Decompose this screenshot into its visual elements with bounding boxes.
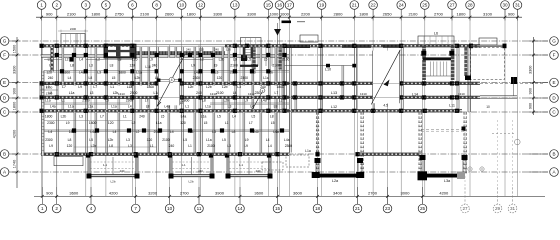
svg-text:1800: 1800 [251, 64, 259, 68]
svg-text:L1a: L1a [45, 99, 51, 103]
svg-text:L7: L7 [145, 99, 149, 103]
svg-text:2100: 2100 [230, 71, 238, 75]
svg-text:2100: 2100 [67, 11, 77, 16]
svg-text:3300: 3300 [247, 11, 257, 16]
svg-text:B: B [552, 152, 555, 157]
svg-text:1800: 1800 [118, 71, 126, 75]
svg-text:L2b: L2b [135, 76, 141, 80]
svg-text:G: G [552, 39, 556, 44]
svg-text:B: B [3, 152, 6, 157]
svg-text:1800: 1800 [13, 102, 17, 110]
svg-text:L3: L3 [89, 64, 93, 68]
svg-text:29: 29 [495, 206, 501, 211]
svg-text:L2b: L2b [206, 85, 212, 89]
svg-text:3300: 3300 [529, 66, 533, 74]
svg-text:L14: L14 [412, 93, 418, 97]
svg-text:E: E [552, 80, 555, 85]
svg-text:L1: L1 [190, 130, 194, 134]
svg-text:L4a: L4a [79, 71, 85, 75]
svg-text:L8: L8 [109, 144, 113, 148]
svg-text:L5: L5 [271, 121, 275, 125]
svg-text:L3: L3 [227, 144, 231, 148]
svg-text:L3: L3 [212, 130, 216, 134]
svg-text:4200: 4200 [439, 191, 449, 196]
svg-text:L5: L5 [161, 115, 165, 119]
svg-text:L1: L1 [111, 85, 115, 89]
svg-text:1310: 1310 [458, 92, 465, 96]
svg-text:2100: 2100 [230, 64, 238, 68]
svg-text:L5: L5 [252, 115, 256, 119]
svg-text:L4: L4 [48, 130, 52, 134]
svg-text:E: E [3, 80, 6, 85]
svg-text:22: 22 [371, 3, 377, 8]
svg-text:1-1: 1-1 [181, 163, 186, 167]
svg-text:1: 1 [40, 3, 43, 8]
svg-text:240: 240 [152, 64, 158, 68]
svg-text:1-1: 1-1 [239, 163, 244, 167]
svg-text:L8: L8 [202, 99, 206, 103]
svg-text:L5: L5 [89, 138, 93, 142]
svg-text:15: 15 [275, 206, 281, 211]
svg-text:L4a: L4a [284, 138, 290, 142]
svg-text:120: 120 [147, 138, 153, 142]
svg-text:L2b: L2b [188, 180, 193, 184]
svg-text:L4: L4 [266, 138, 270, 142]
svg-text:2300: 2300 [126, 99, 134, 103]
svg-text:L2b: L2b [108, 138, 114, 142]
svg-text:F: F [553, 53, 556, 58]
svg-text:L9: L9 [244, 144, 248, 148]
svg-text:L4: L4 [113, 130, 117, 134]
svg-text:240: 240 [253, 130, 259, 134]
svg-text:L1a: L1a [201, 115, 207, 119]
svg-text:L8: L8 [146, 105, 150, 109]
svg-text:2750: 2750 [115, 11, 125, 16]
svg-text:3900: 3900 [215, 191, 225, 196]
svg-text:3600: 3600 [254, 191, 264, 196]
svg-text:240: 240 [196, 91, 202, 95]
svg-text:2300: 2300 [45, 138, 53, 142]
svg-text:L5: L5 [204, 121, 208, 125]
svg-text:L2: L2 [96, 58, 100, 62]
svg-text:L5: L5 [112, 76, 116, 80]
svg-text:4200: 4200 [109, 191, 119, 196]
svg-text:17: 17 [287, 3, 293, 8]
svg-text:L3a: L3a [444, 179, 451, 183]
svg-text:L12: L12 [331, 105, 337, 109]
svg-text:240: 240 [186, 47, 191, 51]
svg-text:L2b: L2b [113, 91, 119, 95]
svg-text:L18: L18 [145, 65, 151, 69]
svg-text:L8: L8 [118, 58, 122, 62]
svg-text:24: 24 [399, 3, 405, 8]
svg-text:900: 900 [46, 191, 53, 196]
svg-text:L4: L4 [233, 91, 237, 95]
svg-text:L9: L9 [46, 85, 50, 89]
svg-text:L1a: L1a [305, 149, 311, 153]
svg-text:L4: L4 [268, 144, 272, 148]
svg-text:3: 3 [85, 3, 88, 8]
svg-text:L8: L8 [68, 138, 72, 142]
svg-text:L4a: L4a [181, 115, 187, 119]
svg-text:240: 240 [198, 169, 203, 173]
svg-text:L1: L1 [123, 115, 127, 119]
svg-text:L2: L2 [136, 130, 140, 134]
svg-text:10: 10 [167, 206, 173, 211]
svg-text:L8: L8 [70, 64, 74, 68]
svg-text:2650: 2650 [383, 11, 393, 16]
svg-text:2: 2 [55, 206, 58, 211]
svg-text:G: G [3, 39, 7, 44]
svg-text:L8: L8 [110, 64, 114, 68]
svg-text:23: 23 [385, 206, 391, 211]
svg-text:1800: 1800 [277, 85, 285, 89]
svg-text:L9: L9 [149, 58, 153, 62]
svg-text:19: 19 [319, 3, 325, 8]
svg-text:900: 900 [508, 11, 515, 16]
svg-text:L8: L8 [270, 115, 274, 119]
svg-text:L3: L3 [237, 85, 241, 89]
svg-text:2100: 2100 [162, 138, 170, 142]
svg-text:L2: L2 [132, 121, 136, 125]
svg-text:900: 900 [529, 103, 533, 109]
svg-text:240: 240 [120, 169, 125, 173]
svg-text:L5: L5 [264, 58, 268, 62]
svg-text:900: 900 [46, 11, 53, 16]
svg-text:L1a: L1a [111, 105, 117, 109]
svg-text:L2: L2 [200, 58, 204, 62]
svg-text:3000: 3000 [401, 191, 411, 196]
svg-text:4.5: 4.5 [383, 104, 388, 108]
svg-text:1800: 1800 [69, 130, 77, 134]
svg-text:L7: L7 [249, 121, 253, 125]
svg-text:21: 21 [352, 3, 358, 8]
svg-text:F: F [3, 53, 6, 58]
svg-text:1800: 1800 [89, 121, 97, 125]
svg-text:10: 10 [179, 3, 185, 8]
svg-text:L10: L10 [325, 68, 331, 72]
svg-text:L1a: L1a [206, 138, 212, 142]
svg-text:1800: 1800 [187, 11, 197, 16]
svg-text:1800: 1800 [457, 11, 467, 16]
svg-text:L9: L9 [66, 121, 70, 125]
svg-text:2300: 2300 [241, 76, 249, 80]
svg-text:L4: L4 [232, 115, 236, 119]
svg-text:120: 120 [46, 71, 52, 75]
svg-text:1: 1 [41, 206, 44, 211]
svg-text:2100: 2100 [216, 91, 224, 95]
svg-text:120: 120 [130, 64, 136, 68]
svg-text:L1: L1 [279, 99, 283, 103]
svg-text:8: 8 [155, 3, 158, 8]
svg-text:16: 16 [277, 3, 283, 8]
svg-text:L2: L2 [65, 58, 69, 62]
svg-text:30: 30 [502, 3, 508, 8]
svg-text:2700: 2700 [368, 191, 378, 196]
svg-text:2100: 2100 [207, 144, 215, 148]
svg-text:1000: 1000 [280, 11, 290, 16]
svg-text:120: 120 [108, 121, 114, 125]
svg-text:900: 900 [13, 88, 17, 94]
svg-text:1800: 1800 [63, 71, 71, 75]
svg-text:L1a: L1a [69, 91, 75, 95]
svg-text:2200: 2200 [301, 11, 311, 16]
svg-text:2300: 2300 [47, 121, 55, 125]
svg-text:2700: 2700 [180, 191, 190, 196]
svg-text:L1a: L1a [88, 105, 94, 109]
svg-text:11: 11 [197, 206, 202, 211]
svg-text:5: 5 [105, 3, 108, 8]
svg-text:7: 7 [134, 206, 137, 211]
svg-text:L5: L5 [183, 138, 187, 142]
svg-text:L1a: L1a [127, 85, 133, 89]
svg-text:L3: L3 [79, 115, 83, 119]
svg-text:L8: L8 [274, 105, 278, 109]
svg-text:L1: L1 [61, 99, 65, 103]
svg-text:L4: L4 [79, 58, 83, 62]
svg-text:L3: L3 [215, 71, 219, 75]
svg-text:L8: L8 [232, 130, 236, 134]
svg-text:L1a: L1a [263, 76, 269, 80]
svg-text:L1: L1 [188, 144, 192, 148]
svg-text:L8: L8 [89, 76, 93, 80]
svg-text:120: 120 [217, 76, 223, 80]
svg-text:21: 21 [355, 206, 361, 211]
svg-text:L9: L9 [233, 58, 237, 62]
svg-text:L2b: L2b [224, 99, 230, 103]
svg-text:L9: L9 [245, 138, 249, 142]
svg-text:L3: L3 [97, 71, 101, 75]
svg-text:25: 25 [422, 3, 428, 8]
svg-text:L4: L4 [250, 105, 254, 109]
svg-text:18: 18 [315, 206, 321, 211]
svg-text:L6: L6 [434, 32, 438, 36]
svg-text:1000: 1000 [269, 11, 279, 16]
svg-text:L9: L9 [244, 99, 248, 103]
svg-text:3300: 3300 [213, 11, 223, 16]
svg-text:1800: 1800 [45, 115, 53, 119]
svg-text:3600: 3600 [69, 191, 79, 196]
svg-text:L4a: L4a [273, 130, 279, 134]
svg-text:240: 240 [48, 76, 54, 80]
svg-text:1800: 1800 [359, 11, 369, 16]
svg-text:L3: L3 [128, 144, 132, 148]
svg-text:2800: 2800 [334, 11, 344, 16]
svg-text:2300: 2300 [193, 76, 201, 80]
svg-text:L2b: L2b [222, 85, 228, 89]
svg-text:L3: L3 [228, 105, 232, 109]
svg-text:L4: L4 [170, 130, 174, 134]
svg-text:27: 27 [449, 3, 455, 8]
svg-text:2300: 2300 [130, 91, 138, 95]
svg-text:2100: 2100 [82, 99, 90, 103]
svg-text:L5: L5 [49, 91, 53, 95]
svg-text:L5: L5 [222, 138, 226, 142]
svg-text:13: 13 [232, 3, 238, 8]
svg-text:31: 31 [515, 3, 521, 8]
svg-text:1313: 1313 [118, 92, 125, 96]
svg-text:L1a: L1a [205, 105, 211, 109]
svg-text:L4a: L4a [261, 99, 267, 103]
svg-text:L3: L3 [126, 138, 130, 142]
svg-text:L7: L7 [93, 85, 97, 89]
svg-text:240: 240 [169, 144, 175, 148]
svg-text:2100: 2100 [282, 58, 290, 62]
svg-text:120: 120 [199, 47, 204, 51]
svg-text:2100: 2100 [272, 64, 280, 68]
svg-text:L1: L1 [225, 121, 229, 125]
svg-text:240: 240 [256, 169, 261, 173]
svg-text:L2b: L2b [219, 58, 225, 62]
svg-text:L1a: L1a [156, 121, 162, 125]
svg-text:L4a: L4a [50, 105, 56, 109]
svg-text:1310: 1310 [360, 92, 367, 96]
svg-text:L4: L4 [68, 76, 72, 80]
svg-text:240: 240 [250, 71, 256, 75]
svg-text:1800: 1800 [147, 85, 155, 89]
svg-text:L9: L9 [49, 144, 53, 148]
svg-text:240: 240 [139, 115, 145, 119]
svg-text:2300: 2300 [285, 144, 293, 148]
svg-text:L2b: L2b [91, 144, 97, 148]
svg-text:L1: L1 [185, 105, 189, 109]
svg-text:3400: 3400 [333, 191, 343, 196]
svg-text:L2b: L2b [110, 180, 115, 184]
svg-text:3200: 3200 [148, 191, 158, 196]
svg-text:L9: L9 [191, 64, 195, 68]
svg-text:6: 6 [131, 3, 134, 8]
svg-text:1740: 1740 [13, 160, 17, 168]
svg-text:L9: L9 [214, 64, 218, 68]
svg-text:L2a: L2a [332, 179, 339, 183]
svg-text:3300: 3300 [13, 66, 17, 74]
svg-text:27: 27 [462, 206, 468, 211]
svg-text:L7: L7 [62, 85, 66, 89]
svg-text:L7: L7 [100, 115, 104, 119]
svg-text:2100: 2100 [140, 11, 150, 16]
svg-text:4: 4 [171, 78, 173, 82]
svg-text:120: 120 [132, 58, 138, 62]
svg-text:120: 120 [67, 144, 73, 148]
svg-text:L3: L3 [105, 99, 109, 103]
svg-text:L4a: L4a [194, 71, 200, 75]
svg-text:25: 25 [420, 206, 426, 211]
svg-text:L5: L5 [48, 58, 52, 62]
svg-text:900: 900 [529, 88, 533, 94]
svg-text:120: 120 [226, 47, 231, 51]
svg-text:L1a: L1a [136, 71, 142, 75]
svg-text:L5: L5 [217, 115, 221, 119]
svg-text:3100: 3100 [483, 11, 493, 16]
svg-text:L2b: L2b [61, 115, 67, 119]
svg-text:4: 4 [90, 206, 93, 211]
svg-text:L1a: L1a [68, 105, 74, 109]
svg-text:4200: 4200 [13, 130, 17, 138]
svg-text:2: 2 [56, 3, 59, 8]
svg-text:L13: L13 [331, 91, 337, 95]
svg-text:10: 10 [486, 105, 490, 109]
svg-text:28: 28 [467, 3, 473, 8]
svg-text:L1: L1 [150, 144, 154, 148]
svg-text:2600: 2600 [165, 11, 175, 16]
svg-text:L2b: L2b [188, 85, 194, 89]
svg-text:31: 31 [510, 206, 516, 211]
svg-text:15: 15 [266, 3, 272, 8]
svg-text:14: 14 [237, 206, 243, 211]
svg-text:2700: 2700 [434, 11, 444, 16]
svg-text:L4: L4 [128, 105, 132, 109]
svg-text:3600: 3600 [293, 191, 303, 196]
svg-text:2100: 2100 [409, 11, 419, 16]
svg-text:L11: L11 [449, 104, 455, 108]
svg-text:L4a: L4a [90, 130, 96, 134]
svg-text:12: 12 [198, 3, 204, 8]
svg-text:L5: L5 [247, 58, 251, 62]
svg-text:L2b: L2b [268, 71, 274, 75]
svg-text:L9: L9 [78, 85, 82, 89]
svg-text:2400: 2400 [70, 27, 77, 31]
svg-text:L7: L7 [275, 91, 279, 95]
svg-text:1800: 1800 [91, 11, 101, 16]
svg-text:1500: 1500 [13, 45, 17, 53]
svg-text:1-1: 1-1 [103, 163, 108, 167]
svg-text:120: 120 [180, 121, 186, 125]
svg-text:240: 240 [214, 47, 219, 51]
svg-text:2300: 2300 [154, 130, 162, 134]
svg-text:L3: L3 [90, 91, 94, 95]
